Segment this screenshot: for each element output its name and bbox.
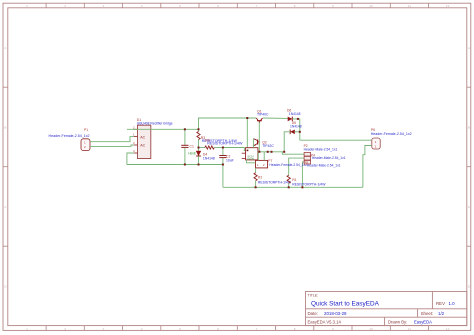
svg-text:A: A [4,46,6,50]
svg-text:B: B [468,125,470,129]
wire P5 to ground rail [302,162,304,187]
junction dots [184,117,304,188]
connector P6 Header-Female-2.54_1x2 [371,128,412,149]
svg-text:Date:: Date: [308,311,319,316]
svg-text:EasyEDA V5.3.14: EasyEDA V5.3.14 [308,319,342,324]
rectifier bridge D1 GBU408 [133,118,173,159]
wire P4 to R1 [289,158,304,175]
svg-text:12: 12 [446,4,450,8]
capacitor C1 [181,129,194,164]
svg-text:RESISTORPTH-1/4W: RESISTORPTH-1/4W [207,142,243,146]
svg-text:10uF: 10uF [226,159,234,163]
svg-text:Header-Male-2.54_1x1: Header-Male-2.54_1x1 [312,156,346,160]
diode D6 1N4148 [287,109,301,122]
svg-text:11: 11 [408,327,411,331]
svg-text:B: B [4,125,6,129]
svg-text:HsnE: HsnE [188,152,196,156]
wire P1 pin1 to bridge pin1 [90,137,134,142]
wire P6 pin2 to ground rail [363,146,372,188]
wire V+ rail up and right [199,118,257,129]
svg-text:1N4148: 1N4148 [289,112,301,116]
resistor R4 horizontal [199,139,243,149]
svg-text:TIP40C: TIP40C [257,113,269,117]
wire rail to P6 pin1 [300,139,372,141]
svg-text:EasyEDA: EasyEDA [414,319,432,324]
diode D4 1N4148 [196,148,215,165]
svg-text:C1: C1 [190,145,194,149]
svg-text:1N4148: 1N4148 [290,124,302,128]
capacitor C2 10uF [219,148,233,188]
wire node to P2 [282,152,304,154]
wire U1 GND to P7 [247,160,256,163]
svg-text:P1: P1 [84,128,88,132]
wire D5 anode down to output node [284,132,290,152]
wire P1 pin2 to bridge pin3 [90,145,134,146]
svg-text:1N4148: 1N4148 [203,157,215,161]
transistor Q2 TIP42C [254,139,275,149]
ground rail 2 [223,186,363,188]
transistor Q1 TIP40C [256,110,269,123]
regulator U1 [242,148,258,161]
svg-text:Sheet:: Sheet: [421,311,434,316]
svg-text:RESISTORPTH-1/4W: RESISTORPTH-1/4W [292,182,326,186]
svg-text:Header-Female-2.54_1x2: Header-Female-2.54_1x2 [269,163,307,167]
resistor R1 vertical [287,175,326,187]
wire Q1 emitter to D6 [263,117,288,119]
svg-text:Drawn By:: Drawn By: [388,319,407,324]
connector P7 Header-Female-2.54_1x2 [256,152,308,168]
resistor R3 vertical [197,129,238,147]
wire bridge pin4 down to ground rail [127,153,134,165]
svg-text:1/2: 1/2 [438,311,445,316]
wire rail down to U1 [246,118,248,150]
svg-text:Header-Male-2.54_1x1: Header-Male-2.54_1x1 [304,148,338,152]
wire R4 to U1 [223,148,247,151]
header P2 Header-Male-2.54_1x1 [304,144,338,156]
svg-text:10: 10 [369,4,373,8]
wire bridge pin2 rail to node R3/C1 [127,128,199,130]
svg-text:REV: REV [436,301,445,306]
header P4 Header-Male-2.54_1x1 [304,153,346,160]
wire Q1 base down to output node [258,123,260,152]
connector P1 Header-Female-2.54_1x2 [49,128,90,151]
wire Q2 pins to U1 top [252,139,254,148]
svg-text:TIP42C: TIP42C [262,144,274,148]
svg-text:A: A [468,46,470,50]
svg-text:AC: AC [140,135,145,139]
title block [306,292,467,326]
svg-text:AC: AC [140,143,145,147]
resistor R2 vertical [254,168,292,187]
svg-text:10: 10 [369,327,373,331]
svg-text:TITLE:: TITLE: [308,294,319,298]
svg-text:R2: R2 [258,176,262,180]
svg-text:Header-Female-2.54_1x2: Header-Female-2.54_1x2 [49,134,90,138]
wire output node [258,151,284,153]
wire ground rail left [127,164,223,166]
svg-text:1.0: 1.0 [449,301,456,306]
svg-text:GND: GND [247,157,255,161]
svg-text:2018-03-29: 2018-03-29 [324,311,347,316]
wire D6 to corner [292,119,300,140]
svg-text:Header-Male-2.54_1x1: Header-Male-2.54_1x1 [307,164,341,168]
header P5 Header-Male-2.54_1x1 [304,160,341,167]
svg-text:Header-Female-2.54_1x2: Header-Female-2.54_1x2 [371,132,412,136]
svg-text:12: 12 [446,327,450,331]
diode D5 1N4148 [290,121,302,134]
svg-text:11: 11 [408,4,411,8]
svg-text:Quick Start to EasyEDA: Quick Start to EasyEDA [311,301,380,308]
svg-text:RESISTORPTH-1/4W: RESISTORPTH-1/4W [258,180,292,184]
